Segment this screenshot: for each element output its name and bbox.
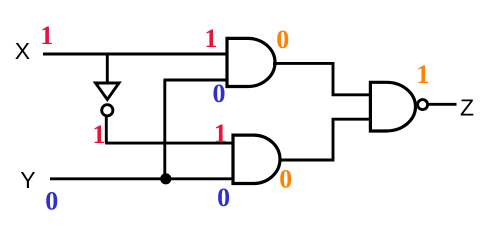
wire inverter output horizontal to AND2 top input: [105, 142, 233, 145]
wire inverter input stem: [106, 54, 109, 82]
junction dot on Y line: [160, 173, 171, 184]
svg-text:0: 0: [217, 183, 230, 212]
wire inverter output stem: [105, 117, 108, 143]
svg-text:0: 0: [213, 79, 226, 108]
svg-text:X: X: [15, 38, 30, 64]
nand-gate U3 body: [370, 82, 415, 131]
svg-text:0: 0: [276, 25, 289, 54]
wire Y input line: [50, 177, 233, 180]
wire AND2 output to elbow and NAND bottom input: [280, 119, 372, 160]
and-gate U2 (bottom AND): [233, 135, 280, 183]
svg-text:1: 1: [204, 24, 217, 53]
nand-gate U3 bubble: [418, 100, 428, 110]
svg-text:1: 1: [416, 60, 429, 89]
svg-text:Z: Z: [460, 94, 474, 120]
svg-text:0: 0: [45, 186, 58, 215]
svg-text:1: 1: [40, 21, 53, 50]
svg-text:1: 1: [92, 120, 105, 149]
svg-text:0: 0: [279, 164, 292, 193]
inverter NOT triangle: [96, 83, 120, 100]
svg-text:Y: Y: [20, 167, 35, 193]
wire mid horizontal to AND1 bottom input: [164, 79, 228, 82]
wire NAND output to Z: [429, 103, 457, 106]
wire AND1 output to elbow and NAND top input: [273, 63, 371, 94]
inverter bubble: [102, 105, 113, 116]
svg-text:1: 1: [214, 119, 227, 148]
and-gate U1 (top AND): [227, 38, 275, 86]
wire mid vertical from Y junction up: [163, 80, 166, 179]
wire X input line: [43, 53, 227, 56]
